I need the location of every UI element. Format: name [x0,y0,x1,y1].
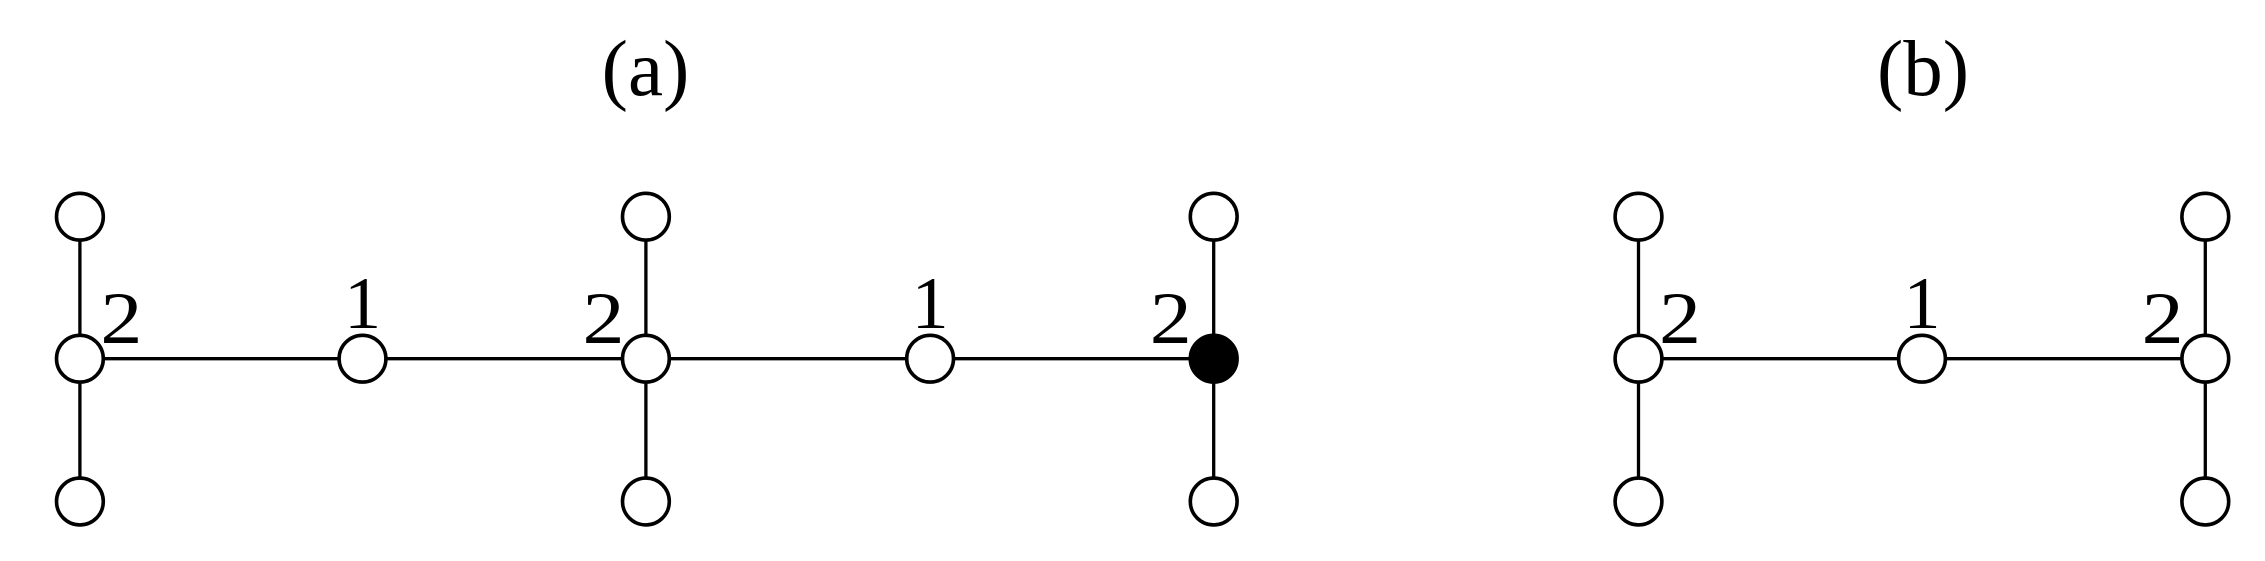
node u1 [1615,335,1662,382]
wire edge v3-v4 [646,357,930,360]
svg-text:2: 2 [1150,278,1192,360]
node leaf above v3 [623,193,670,240]
svg-text:(a): (a) [602,26,690,113]
svg-text:2: 2 [2142,278,2184,360]
svg-text:(b): (b) [1877,26,1969,113]
wire pendant edge v5 down [1212,359,1215,502]
node v4 [907,335,954,382]
wire pendant edge u3 up [2204,217,2207,359]
wire pendant edge v3 up [644,217,647,359]
svg-text:2: 2 [583,278,625,360]
node v1 [57,335,104,382]
wire pendant edge u3 down [2204,359,2207,502]
svg-text:1: 1 [344,263,381,345]
svg-text:1: 1 [912,263,949,345]
svg-text:2: 2 [100,278,142,360]
node leaf below v3 [623,478,670,525]
wire pendant edge v5 up [1212,217,1215,359]
node leaf above v5 [1190,193,1237,240]
wire edge v2-v3 [363,357,646,360]
node v3 [623,335,670,382]
wire edge u1-u2 [1639,357,1923,360]
node leaf below u1 [1615,478,1662,525]
node leaf below v5 [1190,478,1237,525]
svg-text:1: 1 [1904,263,1941,345]
wire pendant edge u1 up [1637,217,1640,359]
wire pendant edge v3 down [644,359,647,502]
node leaf above v1 [57,193,104,240]
node u2 [1899,335,1946,382]
svg-text:2: 2 [1659,278,1701,360]
node v2 [339,335,386,382]
wire pendant edge v1 up [78,217,81,359]
wire pendant edge u1 down [1637,359,1640,502]
node leaf above u1 [1615,193,1662,240]
wire edge v1-v2 [80,357,363,360]
wire edge u2-u3 [1922,357,2205,360]
wire edge v4-v5 [930,357,1214,360]
node leaf below u3 [2182,478,2229,525]
node u3 [2182,335,2229,382]
wire pendant edge v1 down [78,359,81,502]
node v5 (filled) [1190,335,1237,382]
node leaf below v1 [57,478,104,525]
node leaf above u3 [2182,193,2229,240]
